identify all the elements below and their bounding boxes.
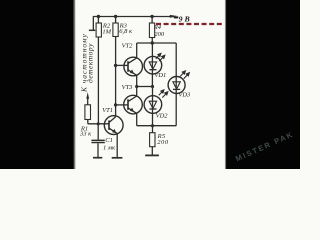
svg-text:С1: С1 xyxy=(105,137,113,144)
svg-text:200: 200 xyxy=(157,139,169,146)
svg-text:33 к: 33 к xyxy=(79,130,92,137)
svg-text:VT2: VT2 xyxy=(122,43,134,50)
svg-text:VT3: VT3 xyxy=(122,84,134,91)
svg-text:VT1: VT1 xyxy=(102,107,113,114)
svg-text:9 В: 9 В xyxy=(179,14,190,23)
svg-text:1М: 1М xyxy=(102,28,111,35)
svg-text:VD1: VD1 xyxy=(154,72,166,79)
svg-text:200: 200 xyxy=(154,31,165,38)
svg-text:6,8 к: 6,8 к xyxy=(119,28,133,35)
svg-text:детектору: детектору xyxy=(86,43,95,83)
svg-text:1 мк: 1 мк xyxy=(103,145,116,152)
svg-text:VD3: VD3 xyxy=(178,91,191,98)
svg-text:VD2: VD2 xyxy=(156,112,169,119)
